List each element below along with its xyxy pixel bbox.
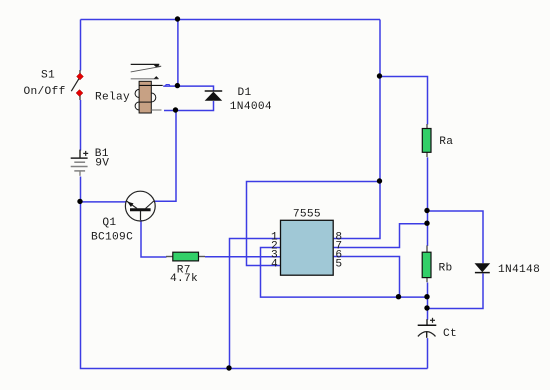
svg-text:Ct: Ct <box>443 328 457 340</box>
svg-text:4: 4 <box>271 258 278 270</box>
svg-text:4.7k: 4.7k <box>170 273 198 285</box>
svg-text:Q1: Q1 <box>102 217 116 229</box>
svg-text:D1: D1 <box>238 87 252 99</box>
svg-text:1N4148: 1N4148 <box>498 264 540 276</box>
svg-text:7555: 7555 <box>293 208 321 220</box>
svg-text:Rb: Rb <box>439 262 453 274</box>
svg-text:BC109C: BC109C <box>91 231 133 243</box>
svg-text:Relay: Relay <box>95 92 130 104</box>
svg-text:S1: S1 <box>41 69 55 81</box>
svg-text:9V: 9V <box>95 158 109 170</box>
svg-text:Ra: Ra <box>439 136 453 148</box>
svg-text:On/Off: On/Off <box>24 86 66 98</box>
svg-text:5: 5 <box>335 258 342 270</box>
svg-text:1N4004: 1N4004 <box>230 101 272 113</box>
